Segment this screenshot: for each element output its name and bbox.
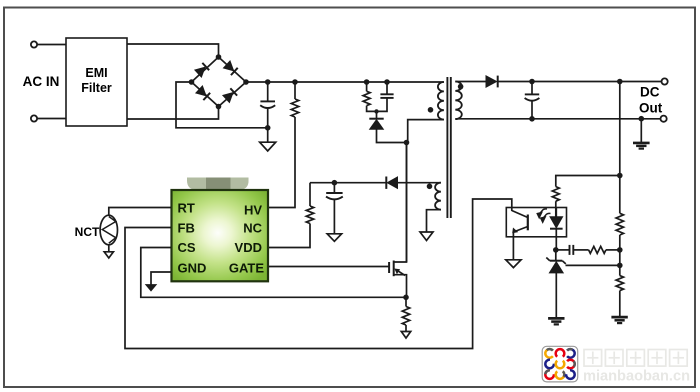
ground GND pin solid arrow	[146, 285, 156, 291]
resistor R3 (current sense)	[402, 307, 409, 326]
capacitor C1 bulk bottom curved plate	[260, 105, 275, 108]
ground opto open triangle	[506, 260, 521, 268]
wire main DC rail	[246, 81, 444, 83]
svg-text:CS: CS	[178, 240, 196, 255]
capacitor C4 bottom curved plate	[525, 98, 540, 101]
bridge rectifier BR1	[192, 57, 247, 107]
wire R5 to comp node	[619, 235, 621, 265]
node LED cathode junction	[553, 247, 559, 253]
wire FB pin feedback loop	[125, 199, 512, 349]
node bulk cap junction	[265, 125, 271, 131]
wire VDD rail down to R4	[309, 183, 311, 206]
zener diode Z1	[546, 258, 566, 273]
ground NCT small open arrow	[104, 252, 113, 258]
AC input terminal top	[31, 41, 37, 47]
svg-text:Filter: Filter	[81, 81, 112, 95]
node snubber clamp	[374, 109, 378, 113]
wire rail to R1	[294, 82, 296, 99]
MOSFET Q1 gate bar	[388, 262, 390, 273]
wire opto emitter to ground	[512, 237, 514, 260]
svg-text:FB: FB	[178, 220, 195, 235]
node source junction	[403, 295, 409, 301]
capacitor C1 bulk top plate	[260, 100, 275, 102]
watermark logo icon box	[542, 346, 578, 382]
MOSFET Q1 body arrow	[398, 271, 406, 276]
wire bulk cap top	[267, 82, 269, 101]
wire C3 to ground	[333, 200, 335, 234]
wire C2 bottom to clamp node	[377, 98, 388, 112]
optocoupler U2 emitter arrowhead	[512, 228, 518, 234]
ground C3 open triangle	[327, 234, 341, 242]
resistor R6 (comp)	[589, 246, 606, 253]
DC out terminal bottom	[661, 116, 667, 122]
wire primary bottom to drain	[408, 120, 444, 143]
node C4 bottom	[529, 116, 535, 122]
wire LED node to zener	[555, 250, 557, 261]
EMI filter box	[66, 38, 127, 126]
wire zener anode to earth ground	[555, 273, 557, 318]
wire D4 to DC+	[498, 81, 662, 83]
diode D4 (output rectifier)	[486, 76, 498, 88]
svg-text:GATE: GATE	[229, 260, 264, 275]
capacitor C3 bottom curved plate	[326, 197, 343, 200]
transformer T1 secondary winding	[455, 82, 462, 120]
optocoupler U2 box	[506, 208, 566, 237]
bridge diode D1b (top to right)	[223, 61, 237, 75]
node C4 top	[529, 79, 535, 85]
capacitor C5 (comp) plates	[569, 245, 571, 255]
wire AC top to EMI	[37, 44, 66, 46]
wire drain vertical	[406, 143, 408, 263]
diode D2 (clamp, cathode bar top, anode bottom)	[369, 119, 383, 130]
wire right rail from DC+ down	[619, 82, 621, 214]
svg-text:AC IN: AC IN	[23, 74, 60, 89]
wire R4 to VDD pin	[269, 224, 311, 248]
resistor R7 (divider lower)	[616, 276, 623, 291]
ground earth zener	[548, 318, 564, 324]
node bridge right	[243, 79, 249, 85]
svg-text:RT: RT	[178, 200, 195, 215]
wire output cap top	[531, 82, 533, 95]
optocoupler U2 phototransistor	[512, 211, 528, 238]
capacitor C3 (VDD) top plate	[326, 192, 342, 194]
wire R3 to ground	[405, 325, 407, 332]
wire output cap bottom	[531, 101, 533, 119]
ground aux open triangle	[420, 232, 433, 241]
node DC- ground tap	[639, 116, 645, 122]
wire C5 to R6	[573, 249, 588, 251]
capacitor C4 (output) top plate	[525, 93, 539, 95]
svg-text:GND: GND	[178, 260, 207, 275]
ground R3 small open arrow	[401, 332, 410, 339]
svg-text:NCT: NCT	[75, 225, 100, 239]
wire AC bottom to EMI	[37, 118, 66, 120]
node rail C1	[265, 79, 271, 85]
wire GND pin	[151, 272, 171, 285]
wire R6 to right rail	[606, 249, 620, 251]
aux phase dot	[427, 184, 433, 190]
wire rail to snubber resistor	[366, 82, 368, 91]
ground GND1 stem	[267, 128, 269, 143]
wire clamp node to diode D2	[376, 111, 378, 118]
transformer T1 aux winding	[435, 183, 441, 210]
wire CS pin to sense node	[141, 248, 406, 298]
resistor R8 (opto series)	[552, 187, 559, 202]
watermark text chinese	[584, 350, 687, 367]
optocoupler U2 LED	[550, 208, 563, 250]
wire zener cathode link	[566, 264, 620, 266]
wire R2 bottom to clamp node	[367, 106, 377, 112]
thermistor NCT ellipse	[100, 208, 171, 259]
node rail snubber C	[384, 79, 390, 85]
wire D2 anode to drain node	[377, 129, 407, 142]
node comp RC right	[617, 247, 623, 253]
wire VDD node down to cap C3	[333, 183, 335, 193]
IC U1 tab	[187, 178, 249, 190]
svg-text:HV: HV	[244, 203, 262, 218]
wire R1 to HV pin	[269, 117, 296, 208]
node zener link right	[617, 263, 623, 269]
wire R8 to LED anode	[555, 201, 557, 217]
transformer T1 primary winding	[438, 82, 444, 120]
wire opto feed branch	[556, 176, 620, 187]
optocoupler U2 light arrows	[537, 209, 550, 222]
wire aux bottom lead	[427, 210, 441, 232]
ground earth DC-	[633, 143, 650, 149]
wire NCT to RT pin	[109, 208, 171, 216]
node VDD rail	[332, 180, 338, 186]
wire LED node to comp cap	[556, 249, 570, 251]
thermistor NCT zigzag	[102, 217, 116, 244]
node bridge top	[216, 54, 222, 60]
transformer T1 core	[447, 77, 450, 218]
svg-text:NC: NC	[243, 220, 262, 235]
node DC+ divider tap	[617, 79, 623, 85]
wire EMI top to bridge top node	[127, 44, 219, 57]
ground GND1 open triangle	[260, 142, 276, 151]
MOSFET Q1 channel bar	[393, 261, 395, 277]
bridge diode D1c (left to bottom)	[196, 86, 210, 100]
wire EMI bottom to bridge bottom node	[127, 107, 219, 120]
wire GATE pin to MOSFET gate	[269, 266, 390, 268]
node rail snubber R	[364, 79, 370, 85]
DC out terminal top	[662, 78, 668, 84]
wire D3 cathode to VDD node	[310, 182, 386, 184]
diode D3 (aux rectifier, pointing left)	[386, 177, 397, 189]
watermark logo arcs	[545, 349, 574, 379]
wire R7 to earth ground	[619, 291, 621, 317]
wire DC- to earth ground	[640, 119, 642, 143]
node drain snubber junction	[404, 140, 410, 146]
node bridge bottom	[216, 104, 222, 110]
wire secondary top to D4	[455, 81, 486, 83]
svg-text:Out: Out	[639, 101, 663, 116]
resistor R2 (snubber)	[363, 91, 370, 105]
wire secondary bottom rail	[455, 118, 660, 120]
MOSFET Q1 body arrowhead	[394, 269, 400, 275]
svg-text:DC: DC	[640, 85, 660, 100]
secondary phase dot	[458, 84, 464, 90]
wire rail to snubber cap	[386, 82, 388, 94]
MOSFET Q1 drain lead	[394, 143, 407, 263]
svg-text:VDD: VDD	[235, 240, 262, 255]
wire bridge left node return rail	[176, 82, 268, 128]
wire bulk cap bottom	[267, 108, 269, 128]
wire comp node to zener node	[619, 265, 621, 275]
node opto branch tap	[617, 173, 623, 179]
svg-text:EMI: EMI	[85, 66, 107, 80]
node bridge left	[189, 79, 195, 85]
ground earth divider	[611, 317, 627, 323]
bridge diode D1d (bottom to right)	[223, 88, 237, 102]
wire source node to R3	[405, 297, 407, 306]
svg-text:mianbaoban.cn: mianbaoban.cn	[583, 368, 690, 385]
wire aux top lead to D3	[398, 182, 441, 184]
bridge diode D1a (left to top)	[195, 63, 209, 77]
MOSFET Q1 source lead	[394, 275, 407, 298]
resistor R5 (divider upper)	[616, 213, 623, 235]
resistor R4 (VDD)	[306, 206, 313, 224]
node rail R1	[292, 79, 298, 85]
capacitor C2 (snubber) plates	[380, 93, 393, 95]
primary phase dot	[428, 107, 434, 113]
AC input terminal bottom	[31, 115, 37, 121]
wire NCT bottom	[108, 245, 110, 252]
IC U1 body	[172, 190, 269, 281]
resistor R1 (HV startup)	[291, 99, 298, 117]
